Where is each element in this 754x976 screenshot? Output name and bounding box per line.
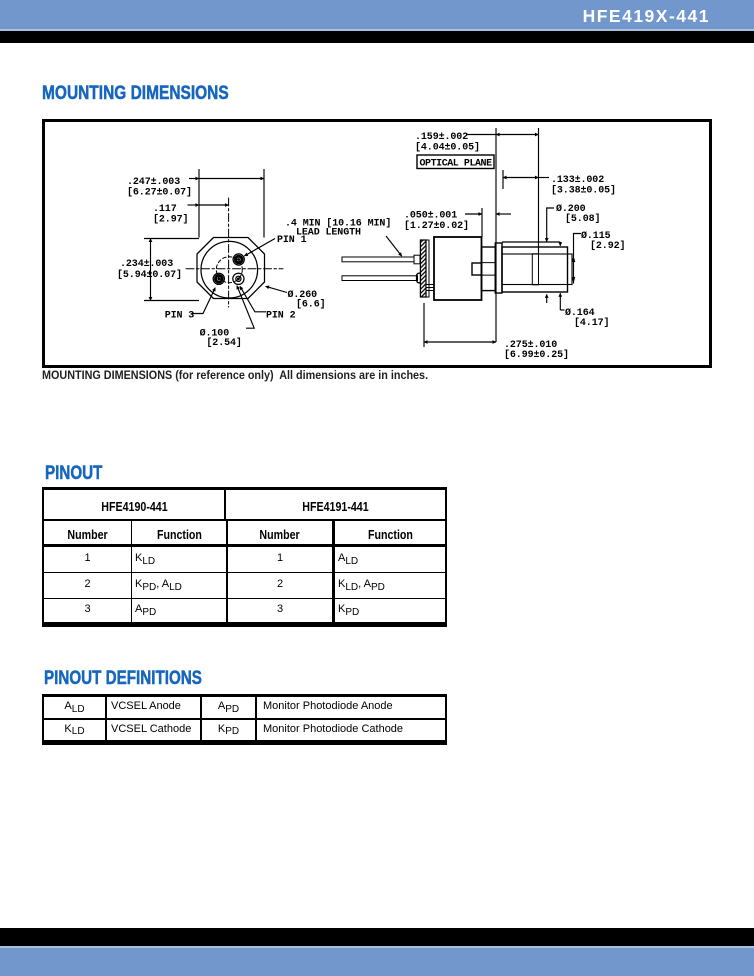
svg-text:[5.94±0.07]: [5.94±0.07] <box>117 269 182 281</box>
svg-text:[4.17]: [4.17] <box>574 317 609 329</box>
svg-text:.050±.001: .050±.001 <box>404 211 457 222</box>
svg-text:.159±.002: .159±.002 <box>415 132 468 143</box>
svg-text:[1.27±0.02]: [1.27±0.02] <box>404 220 469 232</box>
svg-text:[6.27±0.07]: [6.27±0.07] <box>127 187 192 199</box>
svg-text:.247±.003: .247±.003 <box>127 177 180 188</box>
svg-text:[3.38±0.05]: [3.38±0.05] <box>551 185 616 197</box>
svg-text:[2.92]: [2.92] <box>590 240 625 252</box>
svg-text:[6.6]: [6.6] <box>296 299 326 311</box>
svg-text:[2.54]: [2.54] <box>206 337 241 349</box>
svg-text:[2.97]: [2.97] <box>153 214 188 226</box>
svg-text:OPTICAL PLANE: OPTICAL PLANE <box>420 159 493 170</box>
svg-text:.133±.002: .133±.002 <box>551 175 604 186</box>
svg-text:[4.04±0.05]: [4.04±0.05] <box>415 142 480 154</box>
svg-text:[6.99±0.25]: [6.99±0.25] <box>504 349 569 361</box>
svg-text:LEAD LENGTH: LEAD LENGTH <box>296 228 361 239</box>
svg-text:.234±.003: .234±.003 <box>120 259 173 270</box>
svg-text:[5.08]: [5.08] <box>565 213 600 225</box>
svg-text:PIN 2: PIN 2 <box>266 311 296 322</box>
svg-text:.117: .117 <box>153 204 177 215</box>
svg-text:PIN 3: PIN 3 <box>165 311 195 322</box>
